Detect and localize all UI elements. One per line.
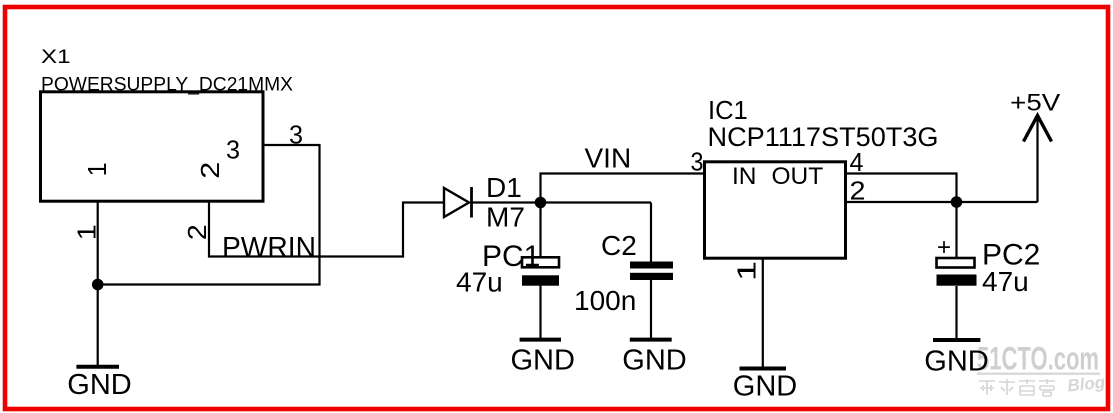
svg-text:OUT: OUT <box>772 163 824 190</box>
node junction VIN <box>535 197 547 209</box>
power +5V symbol <box>1010 90 1060 142</box>
svg-text:NCP1117ST50T3G: NCP1117ST50T3G <box>708 122 939 152</box>
svg-text:C2: C2 <box>601 230 637 261</box>
svg-text:3: 3 <box>691 147 704 177</box>
svg-text:+5V: +5V <box>1010 90 1060 117</box>
wire junction to PC2 top <box>955 202 957 257</box>
svg-text:IC1: IC1 <box>708 97 748 125</box>
svg-text:GND: GND <box>924 346 988 378</box>
svg-text:GND: GND <box>733 371 797 403</box>
wire IC1 pin4 to output junction <box>846 174 957 203</box>
svg-text:M7: M7 <box>486 202 525 233</box>
wire VIN riser and VIN line to IC1 <box>541 174 705 203</box>
wire X1 pin2 PWRIN to diode <box>209 201 444 257</box>
connector X1 body <box>41 92 264 201</box>
svg-text:VIN: VIN <box>585 143 632 174</box>
ground GND under IC1 <box>733 369 797 403</box>
wire X1 pin1 down to GND <box>97 201 99 367</box>
ground GND under PC1 <box>510 340 574 377</box>
ground GND under X1 pin1 <box>67 367 131 401</box>
svg-text:3: 3 <box>226 135 240 165</box>
svg-text:PWRIN: PWRIN <box>222 232 316 264</box>
wire C2 riser top <box>650 203 652 262</box>
svg-text:51CTO.com: 51CTO.com <box>977 341 1099 377</box>
wire C2 bottom to GND <box>650 280 652 340</box>
svg-text:GND: GND <box>622 345 686 377</box>
svg-text:GND: GND <box>67 369 131 401</box>
svg-text:X1: X1 <box>41 47 71 68</box>
wire riser to +5V symbol <box>1036 117 1038 202</box>
wire IC1 pin2 to +5V <box>846 201 1038 203</box>
capacitor C2 <box>630 262 673 281</box>
svg-text:Blog: Blog <box>1066 373 1106 396</box>
wire IC1 pin1 to GND <box>762 258 764 369</box>
svg-text:2: 2 <box>195 162 225 179</box>
svg-text:1: 1 <box>82 162 112 176</box>
svg-text:1: 1 <box>732 261 762 281</box>
capacitor PC2 <box>937 258 977 286</box>
watermark 51CTO.com logo <box>977 341 1107 397</box>
wire junction to PC1 top <box>539 203 541 257</box>
svg-text:IN: IN <box>732 163 757 190</box>
ground GND under C2 <box>622 340 686 377</box>
wire diode cathode to C2 riser <box>472 201 652 203</box>
svg-text:47u: 47u <box>982 266 1029 297</box>
wire PC2 bottom to GND <box>955 286 957 340</box>
wire X1 pin3 to GND net <box>98 145 320 285</box>
diode D1 <box>444 187 472 218</box>
svg-text:2: 2 <box>182 224 212 240</box>
svg-text:100n: 100n <box>574 285 636 316</box>
ground GND under PC2 <box>924 340 988 378</box>
svg-text:GND: GND <box>510 345 574 377</box>
node junction GND net <box>92 279 104 291</box>
capacitor PC1 <box>522 257 559 285</box>
node junction +5V net <box>951 196 963 208</box>
IC1 body <box>705 162 846 258</box>
wire PC1 bottom to GND <box>539 286 541 340</box>
svg-text:47u: 47u <box>456 267 503 298</box>
svg-text:D1: D1 <box>486 172 522 203</box>
